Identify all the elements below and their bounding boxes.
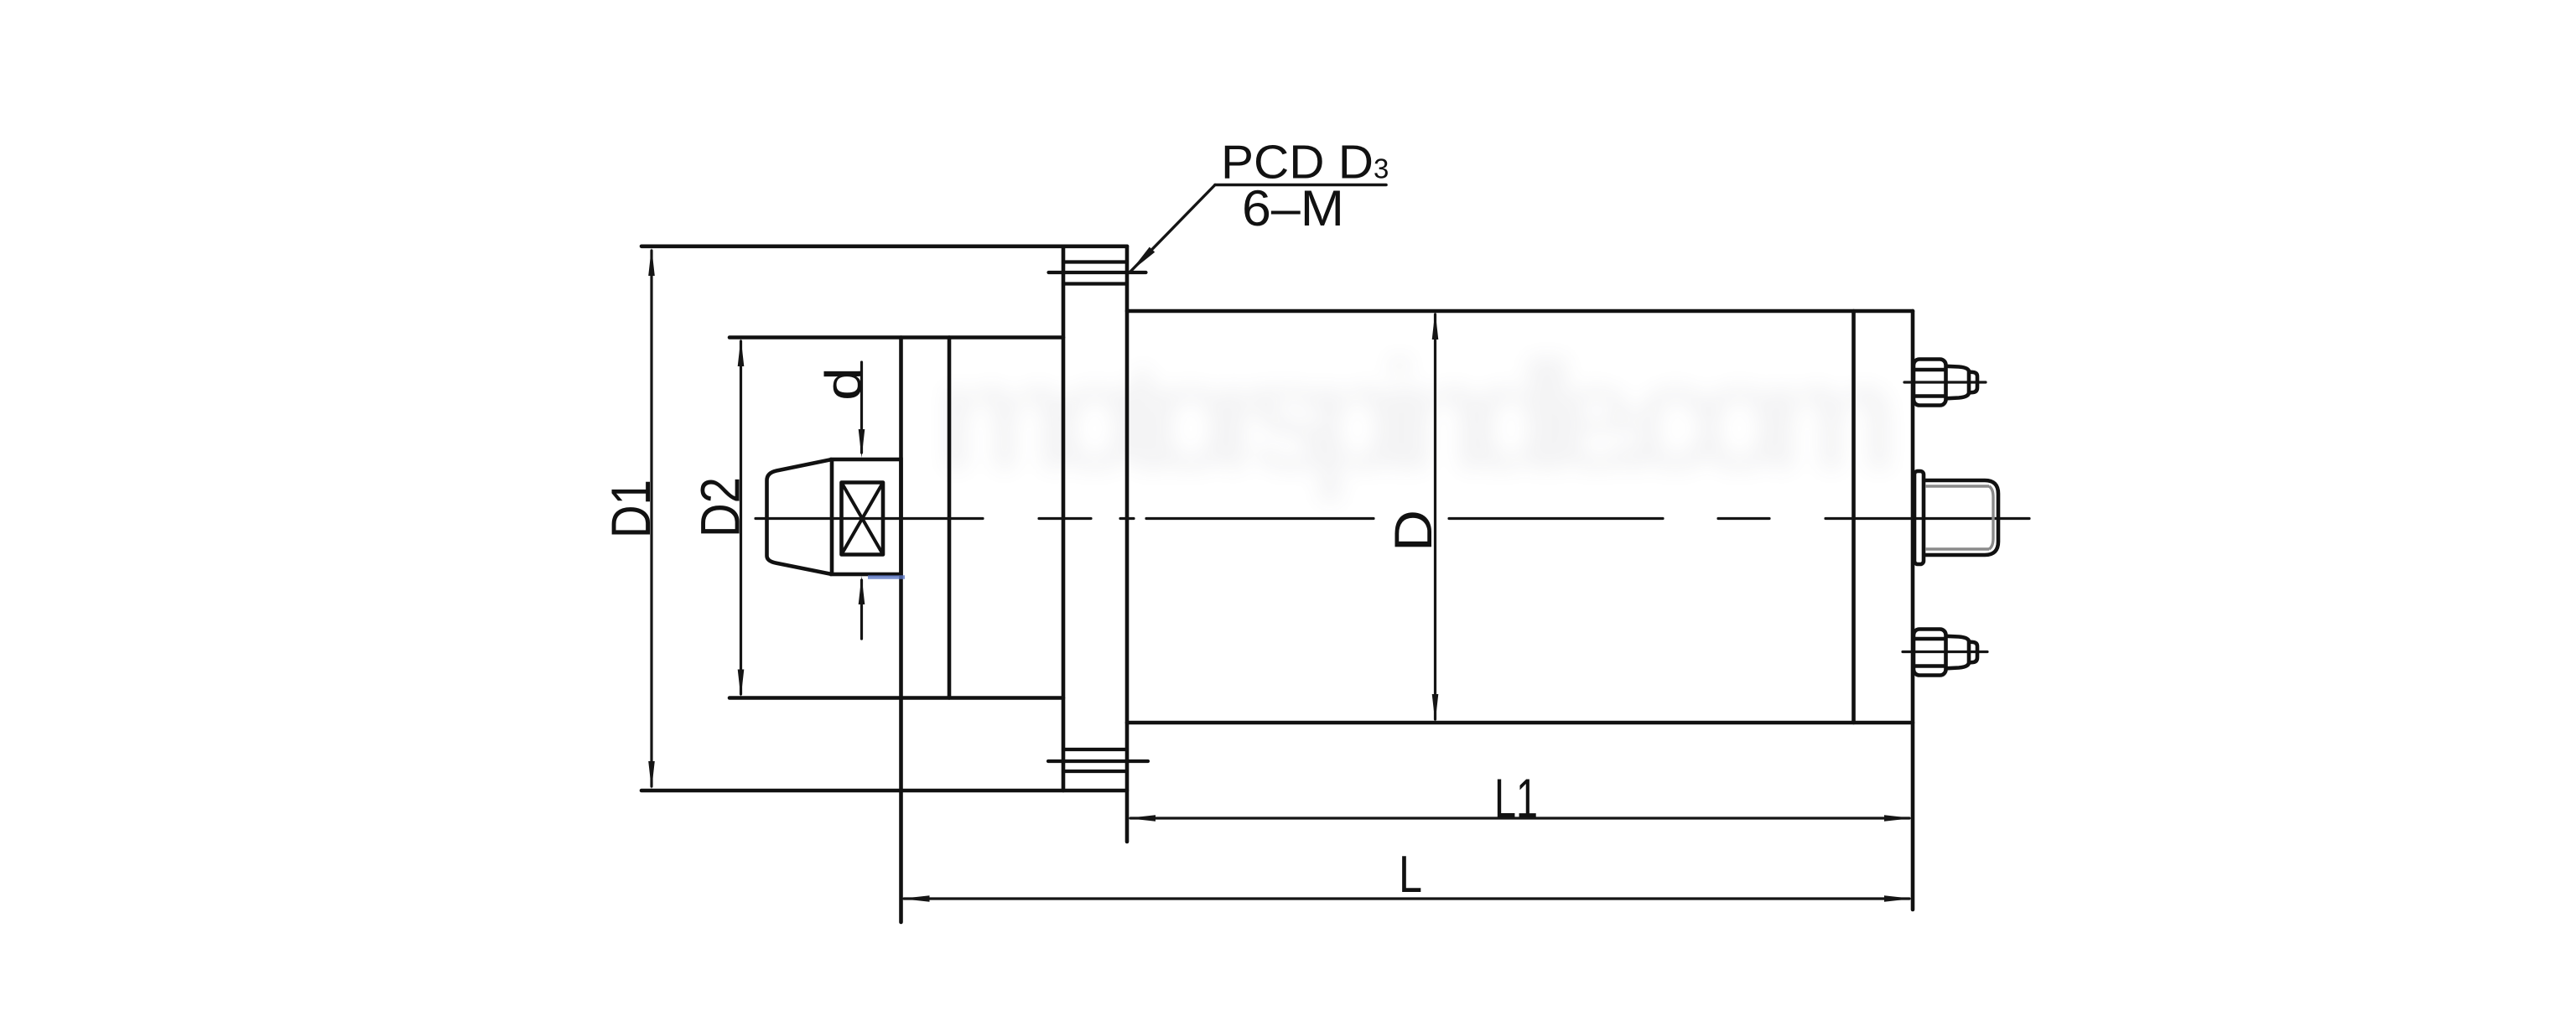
terminal centerline bottom <box>1903 651 1987 653</box>
svg-text:D: D <box>1384 510 1443 552</box>
shaft stub thread lines <box>1925 486 1993 549</box>
blue scan artifact <box>868 575 905 578</box>
collet nut <box>767 459 833 574</box>
dimension D <box>1432 311 1439 723</box>
bearing box with cross <box>842 483 884 555</box>
terminal centerline top <box>1904 381 1986 383</box>
flange plate <box>641 246 1127 842</box>
terminal stud bottom <box>1914 630 1977 676</box>
dimension L1 <box>1127 815 1913 822</box>
collet body <box>832 459 901 574</box>
dimension d <box>859 362 865 639</box>
terminal shaft stub middle <box>1914 471 1998 564</box>
svg-text:L: L <box>1399 846 1422 904</box>
dimension D1 <box>648 247 655 790</box>
svg-text:3: 3 <box>1374 153 1389 184</box>
svg-text:D2: D2 <box>689 477 751 537</box>
flange bolt-hole lines bottom <box>1048 749 1148 771</box>
spindle housing block <box>730 338 1063 923</box>
svg-text:6–M: 6–M <box>1242 180 1344 236</box>
svg-text:D1: D1 <box>600 480 662 538</box>
main centerline <box>756 517 2029 520</box>
leader line PCD <box>1130 185 1387 272</box>
flange bolt-hole lines top <box>1049 262 1146 284</box>
dimension D2 <box>738 338 745 698</box>
dimension L <box>901 895 1914 902</box>
svg-text:d: d <box>815 367 871 401</box>
motor body <box>1127 311 1913 910</box>
svg-text:motorspindle.com: motorspindle.com <box>935 330 1899 503</box>
terminal stud top <box>1914 360 1977 406</box>
watermark <box>935 330 1899 503</box>
svg-text:L1: L1 <box>1494 767 1538 829</box>
